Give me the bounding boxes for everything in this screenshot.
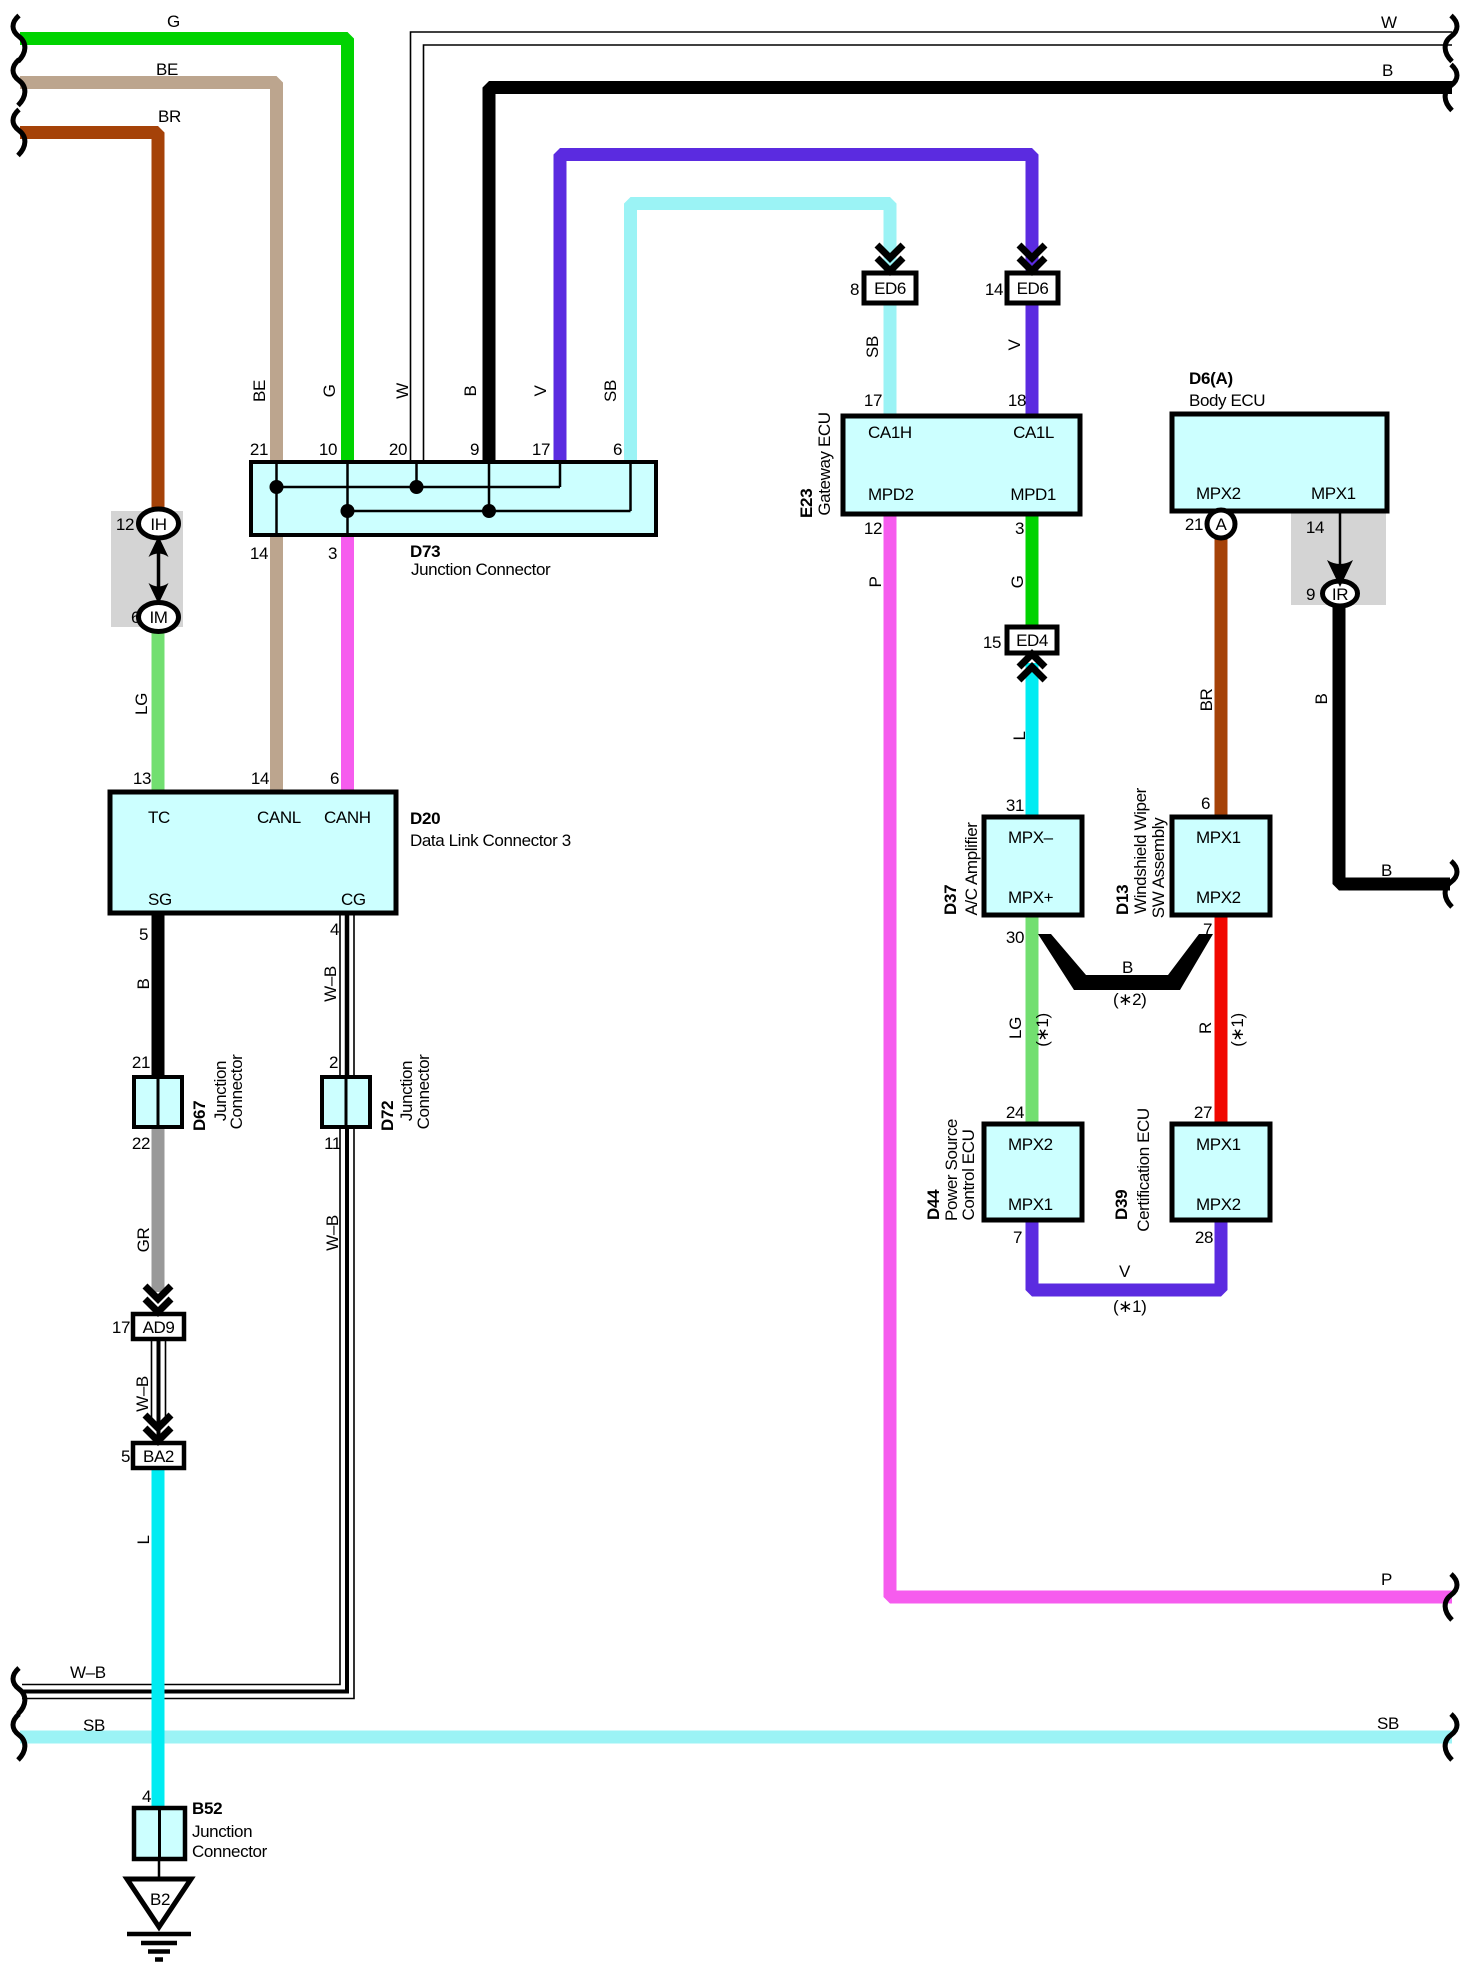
svg-text:W–B: W–B: [70, 1663, 106, 1682]
svg-text:MPX–: MPX–: [1008, 828, 1054, 847]
wire W-B from D72 pin11 down and left to break (hollow with black stripe): [22, 1125, 354, 1699]
svg-text:15: 15: [983, 633, 1001, 652]
svg-text:SW Assembly: SW Assembly: [1149, 817, 1168, 918]
svg-text:Windshield Wiper: Windshield Wiper: [1131, 787, 1150, 914]
svg-text:17: 17: [864, 391, 882, 410]
break symbol BR left: [13, 110, 25, 156]
svg-text:MPX2: MPX2: [1196, 1195, 1241, 1214]
svg-text:D13: D13: [1113, 885, 1132, 915]
wire B bridge D37 pin30 to D13 pin7: [1038, 934, 1213, 990]
svg-text:W–B: W–B: [133, 1376, 152, 1412]
svg-text:D20: D20: [410, 809, 440, 828]
svg-text:E23: E23: [797, 489, 816, 518]
svg-text:24: 24: [1006, 1103, 1024, 1122]
wire W-B from AD9 to BA2 (hollow with black stripe): [152, 1339, 166, 1424]
break symbol B right: [1445, 65, 1457, 111]
svg-text:B: B: [134, 978, 153, 989]
svg-text:(∗2): (∗2): [1113, 990, 1146, 1009]
gray shield box IR: [1291, 513, 1386, 605]
thin lead B52 to ground triangle: [158, 1859, 161, 1881]
A/C amplifier D37 box: [984, 817, 1082, 915]
wire G top: [20, 39, 348, 467]
svg-text:L: L: [1010, 731, 1029, 740]
wire B from D20 SG pin5 to D67 pin21: [152, 911, 165, 1079]
break symbol SB left: [13, 1714, 25, 1760]
svg-text:7: 7: [1013, 1228, 1022, 1247]
svg-text:14: 14: [251, 769, 269, 788]
chevrons below ED4 (pointing up): [1019, 654, 1045, 680]
svg-text:G: G: [1008, 576, 1027, 589]
svg-text:SB: SB: [863, 336, 882, 358]
svg-text:B2: B2: [150, 1890, 170, 1909]
svg-text:6: 6: [330, 769, 339, 788]
svg-text:SB: SB: [601, 380, 620, 402]
svg-text:14: 14: [1306, 518, 1324, 537]
svg-text:11: 11: [324, 1134, 341, 1153]
svg-text:BE: BE: [250, 380, 269, 402]
svg-text:21: 21: [1185, 515, 1203, 534]
wire LG from IM to D20 TC pin13: [152, 629, 165, 794]
body ECU D6(A) box: [1172, 414, 1387, 511]
certification ECU D39 box: [1172, 1124, 1270, 1220]
svg-text:B: B: [1122, 958, 1133, 977]
wire SB bottom horizontal: [20, 1731, 1452, 1744]
wire BR left: [20, 133, 158, 515]
wire BE D73 pin14 to D20 CANL pin14: [270, 531, 283, 794]
wire L from ED4 to D37 MPX- pin31: [1026, 663, 1039, 819]
gray shield box IH/IM: [111, 511, 183, 627]
arrow link IH-IM: [149, 536, 169, 604]
arrow into IR: [1327, 560, 1353, 587]
svg-text:Junction: Junction: [192, 1822, 252, 1841]
break symbol G left: [13, 16, 25, 62]
svg-text:D67: D67: [190, 1101, 209, 1131]
wire L from BA2 to B52 pin4: [152, 1466, 165, 1810]
chevrons into ED6 pin8: [877, 245, 903, 271]
wire W top (hollow white wire): [411, 32, 1453, 466]
svg-text:SG: SG: [148, 890, 172, 909]
svg-text:2: 2: [329, 1053, 338, 1072]
wire BR from connector A to D13 MPX1 pin6: [1215, 536, 1228, 819]
svg-text:Body ECU: Body ECU: [1189, 391, 1265, 410]
svg-text:G: G: [320, 385, 339, 398]
svg-text:(∗1): (∗1): [1113, 1297, 1146, 1316]
svg-text:SB: SB: [1377, 1714, 1399, 1733]
svg-text:CANL: CANL: [257, 808, 301, 827]
svg-text:IH: IH: [150, 515, 166, 534]
svg-text:12: 12: [116, 515, 134, 534]
chevrons into ED6 pin14: [1019, 245, 1045, 271]
svg-text:MPX2: MPX2: [1008, 1135, 1053, 1154]
svg-text:6: 6: [613, 440, 622, 459]
svg-text:Junction Connector: Junction Connector: [411, 560, 551, 579]
svg-text:V: V: [1119, 1262, 1131, 1281]
break symbol BE left: [13, 60, 25, 106]
gateway ECU E23 box: [843, 416, 1080, 514]
svg-text:BR: BR: [1197, 688, 1216, 711]
svg-text:B: B: [1381, 861, 1392, 880]
svg-text:Certification ECU: Certification ECU: [1134, 1108, 1153, 1232]
svg-text:W–B: W–B: [321, 966, 340, 1002]
svg-text:W–B: W–B: [323, 1215, 342, 1251]
svg-text:LG: LG: [1006, 1017, 1025, 1039]
svg-text:10: 10: [319, 440, 337, 459]
svg-text:MPX2: MPX2: [1196, 484, 1241, 503]
svg-text:8: 8: [850, 280, 859, 299]
wire V from D73 pin17 to ED6 pin14: [560, 155, 1032, 467]
svg-text:Connector: Connector: [414, 1054, 433, 1130]
chevrons into AD9: [145, 1286, 171, 1312]
svg-text:D73: D73: [410, 542, 440, 561]
svg-text:G: G: [167, 12, 180, 31]
wire V ED6 to E23 CA1L pin18: [1026, 303, 1039, 418]
svg-text:17: 17: [532, 440, 550, 459]
svg-text:MPX1: MPX1: [1008, 1195, 1053, 1214]
thin lead Body ECU MPX1 pin14 to IR arrow: [1339, 509, 1342, 566]
svg-text:21: 21: [132, 1053, 150, 1072]
svg-text:Control ECU: Control ECU: [959, 1129, 978, 1220]
svg-text:D44: D44: [924, 1189, 943, 1220]
break symbol SB right: [1445, 1714, 1457, 1760]
svg-text:4: 4: [142, 1787, 151, 1806]
connector IR ellipse (pin9): [1323, 581, 1358, 606]
svg-text:30: 30: [1006, 928, 1024, 947]
junction connector D67 box: [134, 1077, 182, 1127]
svg-text:B: B: [1382, 61, 1393, 80]
junction connector D72 box: [322, 1077, 370, 1127]
wire V link D44 MPX1 pin7 to D39 MPX2 pin28: [1032, 1218, 1221, 1290]
svg-text:14: 14: [250, 544, 268, 563]
wire BE top: [20, 83, 277, 467]
svg-text:MPD1: MPD1: [1010, 485, 1056, 504]
svg-text:P: P: [866, 576, 885, 587]
break symbol W right: [1445, 16, 1457, 62]
svg-text:SB: SB: [83, 1716, 105, 1735]
svg-text:27: 27: [1194, 1103, 1212, 1122]
svg-text:22: 22: [132, 1134, 150, 1153]
svg-text:BR: BR: [158, 107, 181, 126]
svg-text:3: 3: [328, 544, 337, 563]
wire G from E23 MPD1 pin3 to ED4: [1026, 512, 1039, 629]
svg-text:ED6: ED6: [1017, 279, 1049, 298]
connector AD9 pin17 box: [133, 1314, 184, 1339]
break symbol W-B left: [13, 1668, 25, 1714]
svg-text:D6(A): D6(A): [1189, 369, 1233, 388]
wire SB ED6 to E23 CA1H pin17: [884, 303, 897, 418]
wire B top: [489, 88, 1452, 467]
svg-text:BE: BE: [156, 60, 178, 79]
svg-text:9: 9: [1306, 585, 1315, 604]
power source control ECU D44 box: [984, 1124, 1082, 1220]
svg-text:W: W: [393, 383, 412, 399]
svg-text:P: P: [1381, 1570, 1392, 1589]
svg-text:21: 21: [250, 440, 268, 459]
svg-text:D72: D72: [378, 1101, 397, 1131]
data link connector 3 D20 box: [110, 792, 396, 913]
svg-text:TC: TC: [148, 808, 170, 827]
svg-text:20: 20: [389, 440, 407, 459]
wire LG from D37 MPX+ pin30 to D44 MPX2 pin24: [1026, 913, 1039, 1126]
svg-text:B: B: [461, 385, 480, 396]
chevrons into BA2: [145, 1415, 171, 1441]
svg-text:MPX1: MPX1: [1311, 484, 1356, 503]
svg-text:12: 12: [864, 519, 882, 538]
ground bars: [127, 1934, 191, 1960]
svg-text:ED4: ED4: [1016, 631, 1048, 650]
svg-text:CG: CG: [341, 890, 366, 909]
svg-text:Connector: Connector: [227, 1054, 246, 1130]
svg-text:MPX1: MPX1: [1196, 1135, 1241, 1154]
svg-text:L: L: [134, 1535, 153, 1544]
svg-text:31: 31: [1006, 796, 1024, 815]
junction connector D73: [251, 462, 656, 535]
wire GR from D67 pin22 to AD9: [152, 1125, 165, 1292]
svg-text:14: 14: [985, 280, 1003, 299]
svg-text:MPD2: MPD2: [868, 485, 914, 504]
shield connector IH (12): [139, 509, 179, 538]
break symbol B lower right: [1445, 861, 1457, 907]
wire P from E23 MPD2 pin12 down and right to break: [890, 512, 1452, 1597]
svg-text:CA1H: CA1H: [868, 423, 912, 442]
connector ED6 pin14 box: [1007, 273, 1058, 303]
svg-text:MPX2: MPX2: [1196, 888, 1241, 907]
svg-text:Gateway ECU: Gateway ECU: [815, 412, 834, 515]
svg-text:5: 5: [139, 925, 148, 944]
connector ED6 pin8 box: [864, 273, 916, 303]
connector BA2 pin5 box: [133, 1443, 184, 1468]
svg-text:Connector: Connector: [192, 1842, 268, 1861]
wire SB from D73 pin6 to ED6 pin8: [631, 204, 891, 467]
svg-text:BA2: BA2: [143, 1447, 174, 1466]
svg-text:B52: B52: [192, 1799, 222, 1818]
svg-text:V: V: [531, 384, 550, 396]
svg-text:CANH: CANH: [324, 808, 371, 827]
svg-text:6: 6: [1201, 794, 1210, 813]
svg-text:7: 7: [1203, 920, 1212, 939]
svg-text:18: 18: [1008, 391, 1026, 410]
svg-text:MPX1: MPX1: [1196, 828, 1241, 847]
svg-text:R: R: [1196, 1022, 1215, 1034]
svg-text:CA1L: CA1L: [1013, 423, 1054, 442]
svg-text:IR: IR: [1332, 585, 1348, 604]
svg-text:ED6: ED6: [874, 279, 906, 298]
wire W-B from D20 CG pin4 to D72 pin2 (hollow with black stripe): [340, 911, 354, 1079]
svg-text:MPX+: MPX+: [1008, 888, 1054, 907]
svg-text:W: W: [1381, 13, 1397, 32]
break symbol P right: [1445, 1574, 1457, 1620]
svg-text:6: 6: [131, 608, 140, 627]
connector ED4 pin15 box: [1007, 627, 1057, 653]
svg-text:V: V: [1005, 338, 1024, 350]
junction connector B52 box: [134, 1808, 185, 1859]
svg-text:A/C Amplifier: A/C Amplifier: [962, 822, 981, 916]
svg-text:IM: IM: [149, 608, 167, 627]
svg-text:(∗1): (∗1): [1228, 1013, 1247, 1046]
svg-text:17: 17: [112, 1318, 130, 1337]
svg-text:(∗1): (∗1): [1033, 1013, 1052, 1046]
wire R from D13 MPX2 pin7 to D39 MPX1 pin27: [1215, 913, 1228, 1126]
wire P D73 pin3 to D20 CANH pin6: [341, 531, 354, 794]
svg-text:LG: LG: [132, 693, 151, 715]
svg-text:3: 3: [1015, 519, 1024, 538]
svg-text:D39: D39: [1112, 1190, 1131, 1220]
ground triangle B2: [127, 1879, 191, 1927]
wire B from IR down and right to break: [1339, 602, 1450, 884]
svg-text:GR: GR: [134, 1228, 153, 1253]
shield connector IM (6): [139, 603, 179, 632]
windshield wiper SW D13 box: [1172, 817, 1270, 915]
connector A circle (pin21 body ECU): [1207, 510, 1235, 538]
svg-text:B: B: [1312, 693, 1331, 704]
svg-text:13: 13: [133, 769, 151, 788]
svg-text:4: 4: [330, 920, 339, 939]
svg-text:5: 5: [121, 1447, 130, 1466]
svg-text:D37: D37: [941, 885, 960, 915]
svg-text:28: 28: [1195, 1228, 1213, 1247]
svg-text:AD9: AD9: [143, 1318, 175, 1337]
svg-text:Data Link Connector 3: Data Link Connector 3: [410, 831, 571, 850]
svg-text:A: A: [1216, 515, 1228, 534]
svg-text:9: 9: [470, 440, 479, 459]
